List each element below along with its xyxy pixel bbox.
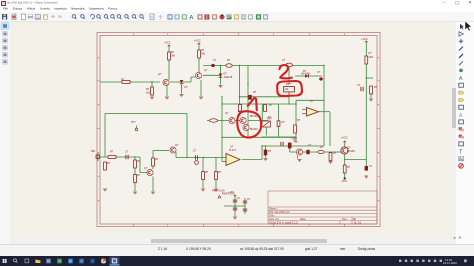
svg-text:File: tda 2030.sch: File: tda 2030.sch bbox=[269, 210, 290, 214]
svg-text:PWR_FLAG: PWR_FLAG bbox=[222, 193, 235, 196]
svg-text:KiCad E.D.A. kicad 5.1.5: KiCad E.D.A. kicad 5.1.5 bbox=[269, 220, 298, 224]
svg-text:+VCC: +VCC bbox=[194, 40, 201, 43]
svg-text:+VCC: +VCC bbox=[361, 38, 368, 41]
svg-text:T: T bbox=[459, 149, 463, 155]
svg-text:Size: A4: Size: A4 bbox=[269, 217, 279, 221]
svg-text:19.11.2020: 19.11.2020 bbox=[443, 261, 457, 265]
svg-text:-VCC: -VCC bbox=[341, 180, 347, 183]
svg-text:A: A bbox=[459, 76, 463, 82]
svg-text:RV?: RV? bbox=[286, 83, 291, 86]
svg-text:TL071: TL071 bbox=[229, 149, 237, 152]
svg-text:+VCC: +VCC bbox=[341, 137, 348, 140]
svg-text:1N4148: 1N4148 bbox=[224, 76, 233, 79]
svg-text:1N4148: 1N4148 bbox=[301, 73, 310, 76]
svg-text:Rev:: Rev: bbox=[342, 217, 348, 221]
svg-text:2R2: 2R2 bbox=[369, 56, 374, 59]
svg-text:Date:: Date: bbox=[300, 217, 306, 221]
svg-text:A: A bbox=[459, 113, 463, 119]
svg-text:WE: WE bbox=[91, 150, 95, 153]
svg-text:BD250: BD250 bbox=[347, 150, 355, 153]
svg-text:+12V: +12V bbox=[291, 137, 297, 140]
svg-text:PWR_FLAG: PWR_FLAG bbox=[212, 190, 225, 193]
svg-text:TP?: TP? bbox=[131, 121, 136, 124]
svg-text:2k2: 2k2 bbox=[146, 92, 151, 95]
svg-text:A: A bbox=[189, 15, 193, 21]
svg-text:BD140: BD140 bbox=[250, 128, 258, 131]
svg-text:+VCC: +VCC bbox=[164, 42, 171, 45]
svg-text:Title:: Title: bbox=[269, 213, 275, 217]
svg-text:RV?: RV? bbox=[267, 118, 272, 121]
svg-text:Ki: Ki bbox=[353, 217, 356, 221]
